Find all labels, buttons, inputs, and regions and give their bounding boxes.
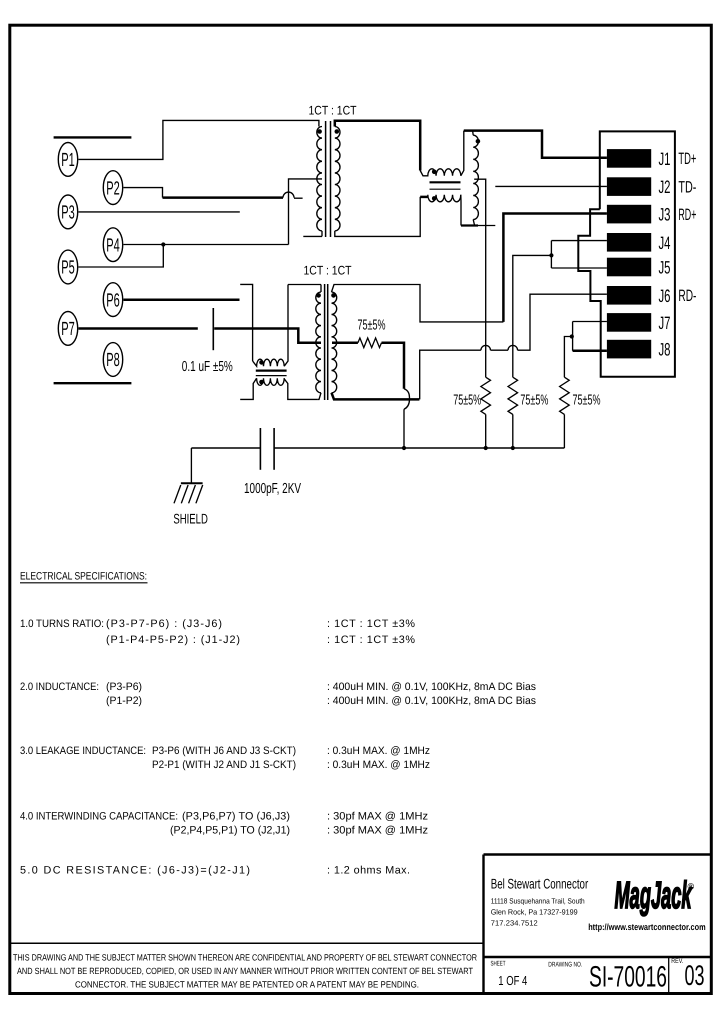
svg-text:ELECTRICAL SPECIFICATIONS:: ELECTRICAL SPECIFICATIONS: — [20, 571, 147, 583]
node P4-P5 junction — [161, 242, 165, 246]
svg-text:2.0 INDUCTANCE:: 2.0 INDUCTANCE: — [20, 681, 99, 693]
svg-text:J7: J7 — [659, 313, 671, 333]
choke L2 core — [256, 370, 287, 372]
capacitor C2 1000pF — [259, 428, 261, 470]
svg-text:75±5%: 75±5% — [573, 392, 601, 408]
svg-text:1000pF, 2KV: 1000pF, 2KV — [244, 481, 301, 497]
svg-text:J2: J2 — [659, 177, 671, 197]
wire to J2 — [495, 185, 607, 187]
connector pin J4 pad — [607, 233, 671, 253]
transformer T2 primary winding — [316, 292, 321, 393]
wire bus left — [191, 447, 260, 449]
svg-text:J1: J1 — [659, 149, 671, 169]
wire shield drop — [190, 448, 192, 483]
svg-text:4.0 INTERWINDING CAPACITANCE: 4.0 INTERWINDING CAPACITANCE: — [20, 811, 178, 823]
svg-text:RD-: RD- — [678, 287, 696, 305]
svg-text:11118 Susquehanna Trail, South: 11118 Susquehanna Trail, South — [491, 897, 585, 906]
wire R1 bus drop — [403, 409, 405, 448]
svg-text:Bel Stewart Connector: Bel Stewart Connector — [491, 876, 589, 892]
T1 secondary phase dot — [335, 129, 340, 134]
svg-text:SHIELD: SHIELD — [173, 511, 208, 527]
wire P7 bold right — [214, 329, 321, 343]
wire RD- hop2 — [508, 345, 518, 350]
wire to J4 — [551, 240, 607, 242]
svg-text:(P3,P6,P7) TO (J6,J3): (P3,P6,P7) TO (J6,J3) — [182, 811, 290, 823]
svg-text:P3-P6 (WITH J6 AND J3 S-CKT): P3-P6 (WITH J6 AND J3 S-CKT) — [152, 745, 296, 757]
svg-text:: 30pf MAX @ 1MHz: : 30pf MAX @ 1MHz — [327, 825, 428, 837]
svg-text:P2: P2 — [106, 178, 120, 199]
svg-text:: 400uH MIN. @ 0.1V, 100KHz,: : 400uH MIN. @ 0.1V, 100KHz, 8mA DC Bias — [327, 695, 537, 707]
wire to J7 — [573, 321, 607, 323]
pin P5 — [58, 250, 77, 284]
wire T2 primary top lead — [320, 285, 322, 293]
svg-text:J5: J5 — [659, 258, 671, 278]
svg-text:P6: P6 — [106, 290, 120, 311]
resistor R3 75ohm — [508, 377, 518, 414]
wire to J8 bold — [573, 350, 607, 353]
title block left edge — [482, 855, 484, 994]
transformer T1 secondary winding — [335, 127, 340, 231]
L2 bottom coil phase dot — [259, 380, 264, 385]
svg-text:J3: J3 — [659, 205, 671, 225]
wire P5 to junction — [79, 245, 164, 268]
svg-text:http://www.stewartconnector.co: http://www.stewartconnector.com — [588, 922, 706, 932]
svg-text:75±5%: 75±5% — [520, 392, 548, 408]
connector pin J2 pad — [607, 177, 671, 197]
svg-text:75±5%: 75±5% — [358, 317, 386, 333]
svg-text:: 400uH MIN. @ 0.1V, 100KHz,: : 400uH MIN. @ 0.1V, 100KHz, 8mA DC Bias — [327, 681, 537, 693]
resistor R4 75ohm — [560, 377, 570, 414]
svg-text:THIS DRAWING AND THE SUBJECT M: THIS DRAWING AND THE SUBJECT MATTER SHOW… — [13, 953, 477, 963]
choke L1 top coil — [420, 169, 461, 176]
svg-text:P8: P8 — [106, 350, 120, 371]
svg-text:MagJack: MagJack — [615, 875, 693, 917]
L1 bottom coil phase dot — [432, 196, 437, 201]
choke L2 bottom coil — [257, 378, 285, 385]
wire W1 tap — [474, 179, 486, 377]
wire to J1 bold — [464, 131, 607, 158]
svg-text:SI-70016: SI-70016 — [589, 961, 667, 994]
wire RD- mid — [491, 349, 509, 351]
svg-text:75±5%: 75±5% — [453, 392, 481, 408]
svg-text:: 1CT : 1CT ±3%: : 1CT : 1CT ±3% — [327, 634, 415, 646]
wire RD- to J6 — [518, 294, 607, 350]
chassis ground shield — [181, 482, 203, 484]
svg-text:: 0.3uH MAX. @ 1MHz: : 0.3uH MAX. @ 1MHz — [327, 759, 430, 771]
connector pin J6 pad — [607, 286, 671, 306]
svg-text:P1: P1 — [61, 150, 75, 171]
wire P2 stub end — [294, 197, 303, 199]
wire L1 topcoil right up — [461, 131, 464, 176]
svg-text:: 0.3uH MAX. @ 1MHz: : 0.3uH MAX. @ 1MHz — [327, 745, 430, 757]
svg-text:CONNECTOR. THE SUBJECT MATTER: CONNECTOR. THE SUBJECT MATTER MAY BE PAT… — [75, 979, 419, 989]
svg-text:03: 03 — [685, 960, 705, 992]
wire P2 hop over center-tap — [283, 192, 294, 197]
T2 secondary phase dot — [331, 293, 336, 298]
L1 top coil phase dot — [432, 170, 437, 175]
svg-text:(P2,P4,P5,P1) TO (J2,J1): (P2,P4,P5,P1) TO (J2,J1) — [170, 825, 290, 837]
connector pin J5 pad — [607, 258, 671, 278]
svg-text:P5: P5 — [61, 258, 75, 279]
svg-text:DRAWING NO.: DRAWING NO. — [548, 962, 582, 969]
wire T2 primary bottom lead — [318, 393, 321, 400]
svg-text:P2-P1 (WITH J2 AND J1 S-CKT): P2-P1 (WITH J2 AND J1 S-CKT) — [152, 759, 296, 771]
wire P2 step — [124, 188, 163, 198]
capacitor C1 0.1uF plate — [212, 308, 214, 350]
pin P3 — [58, 195, 77, 229]
wire P6 bold run — [124, 299, 240, 302]
svg-text:(P3-P7-P6) : (J3-J6): (P3-P7-P6) : (J3-J6) — [106, 618, 222, 630]
filter winding W1 top lead — [472, 131, 475, 136]
choke L1 bottom coil — [428, 195, 461, 202]
wire choke-W1 bottom bold — [461, 224, 478, 226]
title block divider — [484, 956, 712, 958]
svg-text:Glen Rock, Pa 17327-9199: Glen Rock, Pa 17327-9199 — [491, 908, 578, 917]
svg-text:: 30pf MAX @ 1MHz: : 30pf MAX @ 1MHz — [327, 811, 428, 823]
pin P4 — [103, 228, 122, 262]
connector pin J3 pad — [607, 205, 671, 225]
svg-text:1CT : 1CT: 1CT : 1CT — [304, 264, 352, 278]
wire RD- hop1 — [481, 345, 491, 350]
wire RX input stub — [240, 284, 252, 361]
pin P2 — [103, 171, 122, 205]
wire bus right — [274, 447, 564, 449]
pin P8 — [103, 343, 122, 377]
wire J7-J8 tie — [572, 322, 574, 351]
wire T1 primary center tap — [289, 179, 323, 245]
choke L1 core — [430, 181, 461, 183]
wire RD+ bold to J3 — [503, 214, 607, 322]
svg-text:J8: J8 — [659, 340, 671, 360]
pin P1 — [58, 143, 77, 177]
disclaimer box top edge — [10, 942, 484, 944]
wire L1 botcoil right down — [460, 195, 462, 226]
svg-text:®: ® — [688, 882, 695, 892]
wire T2 primary top — [288, 284, 321, 286]
wire P1 to T1 primary top — [79, 120, 319, 159]
wire P7 bold left — [79, 327, 198, 330]
wire to J5 — [551, 267, 607, 269]
transformer T2 secondary winding — [332, 292, 337, 393]
wire R4 to bus — [563, 414, 565, 448]
wire R1 to bus bold — [382, 343, 405, 389]
wire T1 secondary bottom — [335, 197, 420, 237]
wire J4-J5 tie — [550, 241, 552, 268]
svg-text:3.0 LEAKAGE INDUCTANCE:: 3.0 LEAKAGE INDUCTANCE: — [20, 745, 146, 757]
wire P4 run — [124, 244, 289, 246]
bottom rail bar — [54, 382, 132, 384]
svg-text:717.234.7512: 717.234.7512 — [491, 919, 538, 928]
T1 core — [325, 121, 327, 237]
node J7-J8 junction — [570, 334, 574, 338]
svg-text:: 1.2 ohms Max.: : 1.2 ohms Max. — [327, 865, 410, 877]
wire T2 secondary bottom bold — [332, 393, 420, 400]
wire R1 hop over secondary — [404, 389, 410, 409]
svg-text:J6: J6 — [659, 286, 671, 306]
svg-text:1 OF 4: 1 OF 4 — [498, 973, 527, 988]
node bus junction A — [402, 446, 406, 450]
wire L2 botcoil right down — [284, 378, 318, 399]
resistor R2 75ohm — [481, 377, 491, 414]
wire P2 bold run — [163, 196, 284, 199]
connector pin J1 pad — [607, 149, 671, 169]
wire tie to R2 — [513, 255, 552, 377]
L2 top coil phase dot — [259, 360, 264, 365]
transformer T1 primary winding — [317, 127, 322, 231]
wire L2 botcoil left down — [240, 378, 256, 399]
node bus junction C — [511, 446, 515, 450]
wire T2 secondary top — [332, 285, 504, 322]
wire R2 to bus — [485, 414, 487, 448]
svg-text:1.0 TURNS RATIO:: 1.0 TURNS RATIO: — [20, 618, 104, 630]
svg-text:5.0 DC RESISTANCE: (J6-J3)=(J: 5.0 DC RESISTANCE: (J6-J3)=(J2-J1) — [20, 865, 250, 877]
filter winding W1 — [473, 135, 478, 219]
wire R3 to bus — [512, 414, 514, 448]
wire T1 primary bottom stub — [303, 235, 322, 237]
resistor R1 75ohm center-tap — [332, 342, 358, 345]
svg-text:RD+: RD+ — [678, 206, 696, 224]
svg-text:(P1-P2): (P1-P2) — [106, 695, 142, 707]
W1 phase dot — [476, 139, 481, 144]
T2 core — [324, 284, 326, 400]
svg-text:: 1CT : 1CT ±3%: : 1CT : 1CT ±3% — [327, 618, 415, 630]
connector outline — [578, 131, 675, 376]
wire L2 topcoil right — [284, 285, 288, 367]
svg-text:P7: P7 — [61, 319, 75, 340]
wire W1 bottom lead — [473, 220, 474, 226]
svg-text:1CT : 1CT: 1CT : 1CT — [309, 104, 357, 118]
svg-text:(P1-P4-P5-P2) : (J1-J2): (P1-P4-P5-P2) : (J1-J2) — [106, 634, 240, 646]
top rail bar — [54, 136, 132, 138]
svg-text:(P3-P6): (P3-P6) — [106, 681, 142, 693]
connector pin J7 pad — [607, 313, 671, 333]
wire P3 run — [79, 211, 240, 213]
wire L1 bottom lead bold — [420, 196, 427, 199]
T1 primary phase dot — [317, 129, 322, 134]
connector pin J8 pad — [607, 340, 671, 360]
svg-text:J4: J4 — [659, 233, 671, 253]
svg-text:P3: P3 — [61, 203, 75, 224]
wire T1 secondary top bold — [335, 121, 420, 171]
pin P6 — [103, 283, 122, 317]
svg-text:REV.: REV. — [671, 958, 683, 965]
svg-text:SHEET: SHEET — [491, 961, 506, 968]
choke L2 top coil — [253, 359, 285, 366]
title block rev divider — [668, 957, 670, 993]
node bus junction B — [484, 446, 488, 450]
pin P7 — [58, 312, 77, 346]
svg-text:AND SHALL NOT BE REPRODUCED, C: AND SHALL NOT BE REPRODUCED, COPIED, OR … — [17, 966, 473, 976]
wire tie to R3 — [564, 337, 571, 378]
svg-text:0.1 uF ±5%: 0.1 uF ±5% — [182, 359, 233, 375]
T2 primary phase dot — [316, 293, 321, 298]
title block top edge — [484, 853, 712, 855]
node J4-J5 junction — [549, 253, 553, 257]
svg-text:P4: P4 — [106, 235, 120, 256]
svg-text:TD-: TD- — [678, 178, 696, 196]
svg-text:TD+: TD+ — [678, 150, 696, 168]
wire RD- riser — [420, 350, 481, 399]
wire bottom stub thin — [478, 225, 495, 227]
